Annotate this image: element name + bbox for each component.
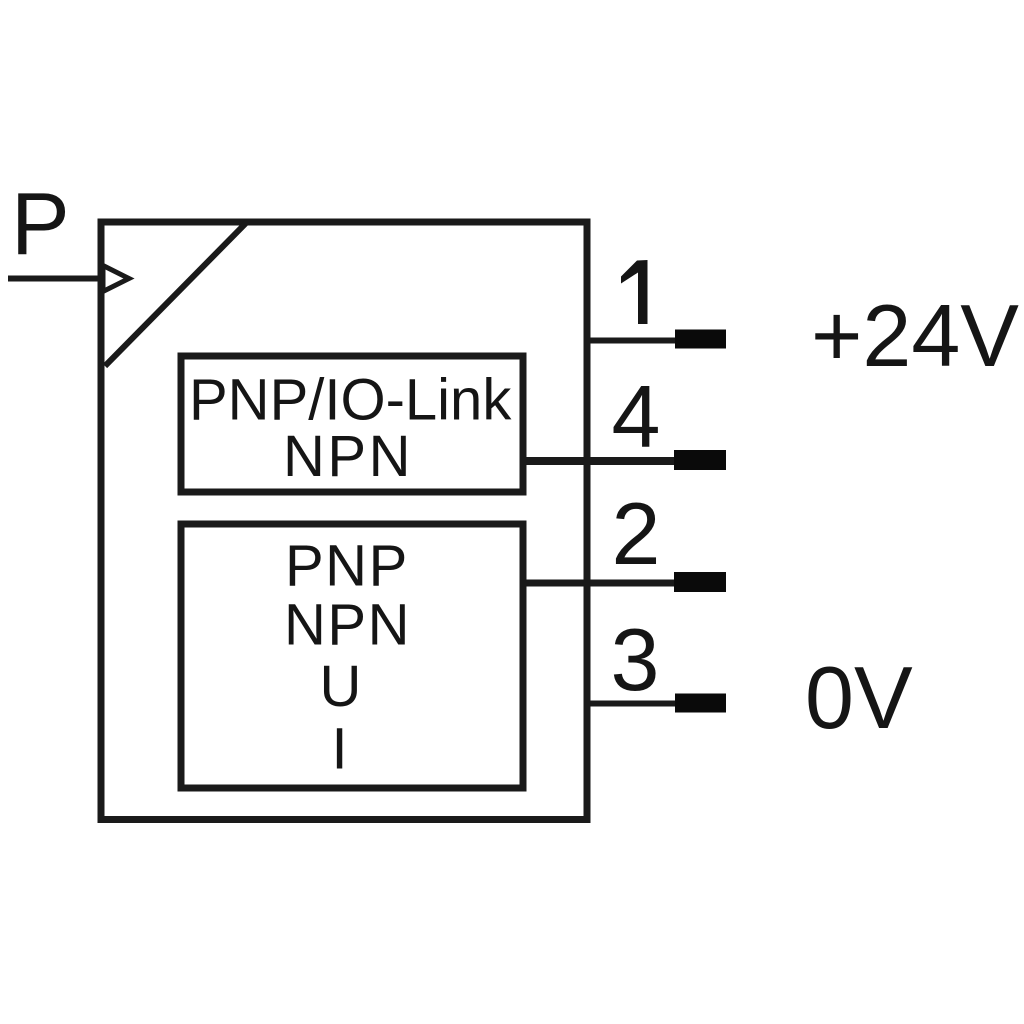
svg-text:NPN: NPN — [283, 424, 413, 489]
svg-text:3: 3 — [611, 610, 660, 709]
svg-text:+24V: +24V — [811, 286, 1019, 385]
svg-text:NPN: NPN — [284, 593, 411, 658]
outer box (sensor body) — [101, 222, 587, 820]
svg-text:U: U — [320, 654, 362, 719]
wire pin 1 — [587, 338, 682, 344]
arrowhead P input — [103, 266, 129, 292]
svg-text:PNP/IO-Link: PNP/IO-Link — [189, 368, 512, 433]
inner box U2 PNP NPN U I — [181, 524, 523, 788]
terminal bar pin 3 — [675, 694, 726, 713]
wire pin 4 — [523, 457, 682, 465]
svg-text:2: 2 — [612, 484, 661, 583]
diagonal adjustment line — [105, 222, 247, 366]
wire P input — [8, 276, 100, 282]
svg-text:0V: 0V — [805, 648, 913, 747]
svg-text:P: P — [11, 174, 70, 273]
wire pin 3 — [587, 701, 682, 707]
wire pin 2 — [523, 580, 682, 587]
terminal bar pin 2 — [674, 572, 726, 592]
svg-text:I: I — [331, 717, 347, 782]
svg-text:4: 4 — [612, 367, 661, 466]
terminal bar pin 1 — [675, 330, 726, 349]
terminal bar pin 4 — [674, 450, 726, 470]
inner box U1 PNP/IO-Link NPN — [181, 356, 523, 492]
pin number 1 — [621, 260, 648, 324]
svg-text:PNP: PNP — [285, 534, 409, 599]
